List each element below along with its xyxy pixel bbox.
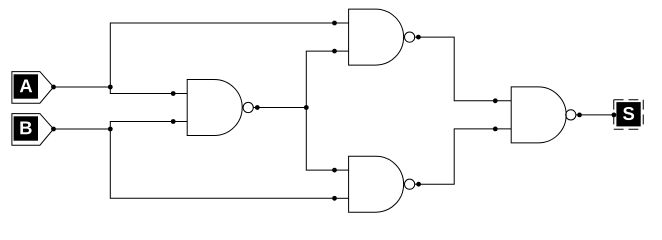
node U3 input 2 port: [332, 196, 337, 201]
node U2 input 1 port: [332, 21, 337, 26]
node B tag port: [51, 127, 56, 132]
output S: [614, 100, 644, 130]
wire net A horizontal from tag: [54, 86, 111, 88]
wire net B branch down to NAND3 input 2: [110, 129, 334, 198]
node S tag port: [612, 113, 617, 118]
node A tag port: [51, 85, 56, 90]
node A junction: [108, 85, 113, 90]
node U3 output port: [416, 182, 421, 187]
junction and port dots: [51, 21, 616, 201]
node N1 junction: [304, 105, 309, 110]
NAND gate U4 (right): [495, 87, 579, 143]
node U1 output port: [255, 105, 260, 110]
node U1 input 2 port: [171, 119, 176, 124]
wire net N2 from U2 output to NAND4 input 1: [418, 37, 495, 101]
NAND gate U1 (middle left): [173, 80, 257, 136]
wire net N1 from U1 output to junction: [257, 107, 306, 109]
wire net B horizontal from tag: [54, 128, 111, 130]
node U4 input 2 port: [493, 126, 498, 131]
input A: [12, 72, 54, 104]
wire net S from U4 output to output tag: [580, 114, 614, 116]
node U4 output port: [577, 113, 582, 118]
node U1 input 1 port: [171, 91, 176, 96]
node U2 input 2 port: [332, 49, 337, 54]
wire net N1 branch up to NAND2 input 2: [306, 51, 334, 107]
node B junction: [108, 127, 113, 132]
node U3 input 1 port: [332, 168, 337, 173]
wire net B jog up to NAND1 input 2: [110, 122, 173, 130]
wire net A branch up to top rail: [110, 23, 334, 87]
NAND gate U2 (top): [335, 9, 419, 65]
node U4 input 1 port: [493, 98, 498, 103]
wire net N3 from U3 output to NAND4 input 2: [419, 129, 496, 184]
input B: [12, 114, 54, 146]
node U2 output port: [416, 35, 421, 40]
wire net N1 branch down to NAND3 input 1: [306, 108, 334, 171]
NAND gate U3 (bottom): [335, 156, 419, 212]
wire net A jog down to NAND1 input 1: [110, 87, 173, 94]
